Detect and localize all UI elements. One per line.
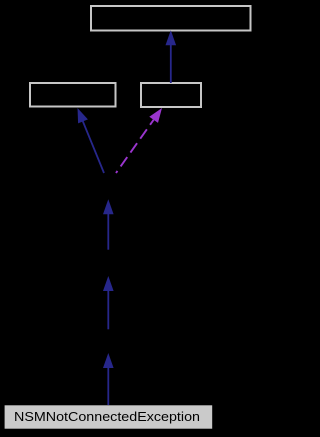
inheritance arrow: hidden node 3 to hidden node 2: [103, 276, 114, 329]
node: right parent class box (empty): [141, 83, 201, 107]
inheritance arrow: right parent to top base: [166, 30, 177, 83]
svg-text:NSMNotConnectedException: NSMNotConnectedException: [14, 410, 200, 424]
node: top base class box (empty, NSObject): [91, 6, 251, 31]
usage arrow: hidden child to right parent (dashed, darkorchid): [116, 108, 162, 173]
inheritance arrow: hidden child to left parent (solid): [78, 108, 105, 173]
inheritance arrow: NSMNotConnectedException to hidden node 3: [103, 353, 114, 405]
node NSMNotConnectedException (current class, grey filled): [5, 405, 213, 428]
inheritance arrow: hidden node 2 to hidden node 1: [103, 199, 114, 250]
node: left parent class box (empty): [30, 83, 116, 107]
